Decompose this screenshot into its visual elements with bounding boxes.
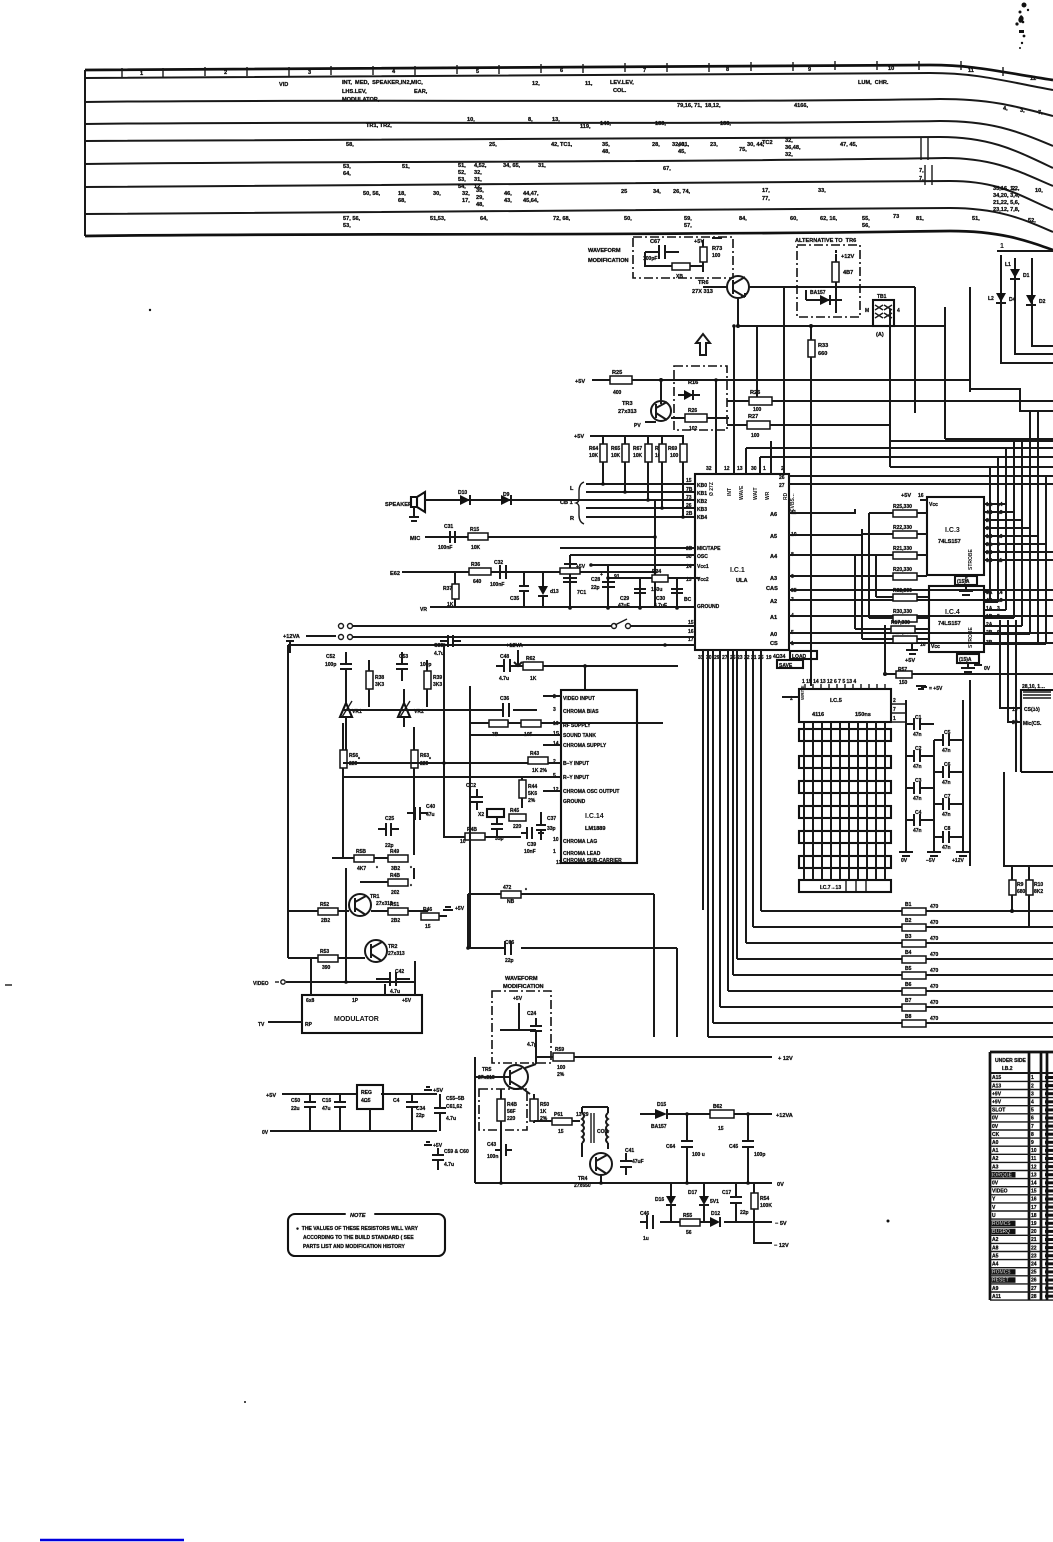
svg-text:64,: 64, — [480, 216, 488, 222]
svg-text:30,: 30, — [433, 191, 441, 197]
svg-text:R64: R64 — [589, 446, 598, 452]
svg-text:R–Y INPUT: R–Y INPUT — [563, 775, 589, 781]
ground -5V — [927, 852, 941, 856]
svg-text:45,: 45, — [678, 149, 686, 155]
svg-text:L: L — [570, 486, 574, 492]
svg-text:MODIFICATION: MODIFICATION — [503, 984, 544, 990]
svg-text:C33: C33 — [434, 643, 443, 649]
dashed box alternative — [797, 245, 860, 317]
svg-text:100n: 100n — [487, 1154, 498, 1160]
svg-text:BA157: BA157 — [810, 290, 826, 296]
svg-text:R67: R67 — [633, 446, 642, 452]
svg-text:146,: 146, — [600, 121, 611, 127]
svg-text:R10: R10 — [1034, 882, 1043, 888]
svg-text:L2: L2 — [988, 296, 994, 302]
svg-text:INT: INT — [727, 488, 733, 496]
svg-text:C37: C37 — [547, 816, 556, 822]
resistor R46 — [421, 913, 439, 920]
svg-text:IORQGE: IORQGE — [992, 1172, 1013, 1178]
svg-text:57, 56,: 57, 56, — [343, 216, 361, 222]
trimmer VR2 — [398, 703, 410, 717]
svg-text:R51: R51 — [390, 902, 399, 908]
resistor B3 470 — [746, 942, 1053, 944]
svg-text:RF SUPPLY: RF SUPPLY — [563, 723, 591, 729]
diode ZD — [672, 263, 690, 270]
svg-text:25: 25 — [621, 189, 627, 195]
resistor R50 — [530, 1099, 538, 1121]
svg-text:C34: C34 — [416, 1106, 425, 1112]
wire data 1 — [707, 650, 709, 1037]
svg-text:23,12, 7,8,: 23,12, 7,8, — [993, 207, 1020, 213]
IC4 pin lines to bus — [984, 591, 990, 593]
svg-text:A2: A2 — [770, 599, 777, 605]
svg-text:A13: A13 — [992, 1083, 1001, 1089]
svg-text:100p: 100p — [325, 662, 336, 668]
svg-text:C24: C24 — [527, 1011, 536, 1017]
TR5 wiring — [535, 1051, 537, 1064]
svg-text:WAVE: WAVE — [739, 485, 745, 500]
wire Vcc2 row — [608, 577, 700, 579]
harness wire row 6 — [85, 181, 1053, 210]
trimmer VR1 — [340, 703, 352, 717]
svg-text:2B2: 2B2 — [321, 918, 330, 924]
svg-text:R34: R34 — [652, 569, 661, 575]
dashed box D14 — [674, 366, 727, 430]
svg-text:C16: C16 — [322, 1098, 331, 1104]
diode d13 — [538, 586, 548, 595]
svg-text:C43: C43 — [487, 1142, 496, 1148]
svg-text:D12: D12 — [711, 1211, 720, 1217]
svg-text:C53: C53 — [399, 654, 408, 660]
svg-text:+5V: +5V — [402, 998, 412, 1004]
svg-text:R30,330: R30,330 — [893, 609, 912, 615]
svg-text:E62: E62 — [390, 571, 400, 577]
svg-text:10: 10 — [553, 837, 559, 843]
svg-text:C61,62: C61,62 — [446, 1104, 462, 1110]
svg-text:50,: 50, — [624, 216, 632, 222]
resistor R52 — [318, 908, 338, 915]
svg-text:U: U — [992, 1213, 996, 1219]
svg-text:640: 640 — [473, 579, 482, 585]
svg-text:23,: 23, — [710, 142, 718, 148]
svg-text:WAVEFORM: WAVEFORM — [505, 976, 538, 982]
svg-text:MODULATOR,: MODULATOR, — [342, 97, 380, 103]
svg-text:51,: 51, — [972, 216, 980, 222]
svg-text:20: 20 — [1031, 1229, 1037, 1235]
svg-text:470: 470 — [930, 904, 939, 910]
svg-text:470: 470 — [930, 920, 939, 926]
svg-text:1u: 1u — [643, 1236, 649, 1242]
svg-text:1K: 1K — [540, 1109, 547, 1115]
svg-text:− 12V: − 12V — [774, 1243, 789, 1249]
svg-text:*: * — [410, 866, 412, 872]
svg-text:ROMCS: ROMCS — [992, 1221, 1011, 1227]
svg-text:10: 10 — [460, 839, 466, 845]
resistor R53 — [318, 955, 338, 962]
svg-text:27X 313: 27X 313 — [692, 289, 713, 295]
svg-text:C39: C39 — [527, 842, 536, 848]
svg-text:4B7: 4B7 — [843, 270, 853, 276]
svg-text:11: 11 — [968, 68, 974, 74]
svg-text:R4B: R4B — [507, 1102, 517, 1108]
svg-text:D4: D4 — [1009, 297, 1016, 303]
wire vbus 7 — [1037, 411, 1039, 644]
svg-text:7: 7 — [643, 68, 646, 74]
transistor TR2 — [365, 940, 387, 962]
svg-text:220: 220 — [507, 1116, 516, 1122]
resistor R55 — [680, 1219, 700, 1226]
IC3 pin lines to bus — [984, 503, 1006, 505]
wire long bottom — [708, 1036, 1053, 1038]
svg-text:CHROMA SUPPLY: CHROMA SUPPLY — [563, 743, 607, 749]
svg-text:27x313: 27x313 — [388, 951, 405, 957]
svg-text:A9: A9 — [992, 1286, 999, 1292]
capacitor C29 — [639, 578, 641, 608]
svg-text:79,16, 71, 18,12,: 79,16, 71, 18,12, — [677, 103, 721, 109]
svg-text:7,: 7, — [919, 176, 924, 182]
wire A5 — [789, 529, 862, 535]
svg-text:LM1889: LM1889 — [585, 826, 606, 832]
connector table frame — [990, 1052, 1053, 1300]
svg-text:R17,330: R17,330 — [891, 620, 910, 626]
svg-text:VID: VID — [279, 82, 288, 88]
svg-text:2: 2 — [1031, 1083, 1034, 1089]
svg-text:*: * — [410, 884, 412, 890]
resistor R43 — [528, 757, 548, 764]
svg-text:42,: 42, — [551, 142, 559, 148]
wire data 4 — [727, 650, 729, 991]
diode D17 — [699, 1196, 709, 1205]
wire ram 7 — [866, 722, 868, 880]
wire data 8 — [752, 650, 754, 927]
svg-text:PV: PV — [634, 423, 641, 429]
svg-text:15: 15 — [425, 924, 431, 930]
wire A3 — [789, 571, 876, 576]
resistor R67 — [832, 262, 839, 282]
svg-text:C52: C52 — [326, 654, 335, 660]
svg-text:8K2: 8K2 — [1034, 889, 1043, 895]
resistor R58 — [354, 855, 374, 862]
svg-text:470: 470 — [930, 984, 939, 990]
svg-text:14: 14 — [1031, 1181, 1037, 1187]
op IC2 partial right box — [1021, 690, 1053, 772]
svg-text:R38: R38 — [375, 675, 384, 681]
svg-text:R45: R45 — [510, 808, 519, 814]
svg-text:BUSRQ: BUSRQ — [992, 1229, 1010, 1235]
resistor R48b — [497, 1099, 505, 1121]
resistor R51 — [388, 908, 408, 915]
RAM row IC11 — [799, 856, 891, 868]
svg-text:3: 3 — [553, 707, 556, 713]
svg-text:R36: R36 — [471, 562, 480, 568]
wire TB1 drop — [889, 309, 891, 467]
wire A2 — [789, 599, 1053, 601]
svg-text:R4B: R4B — [390, 873, 400, 879]
svg-text:+5V: +5V — [513, 996, 523, 1002]
svg-text:81,: 81, — [916, 216, 924, 222]
wire vbus 3 — [1005, 448, 1007, 610]
svg-text:22: 22 — [1031, 1245, 1037, 1251]
svg-text:1P: 1P — [352, 998, 359, 1004]
svg-text:28,: 28, — [652, 142, 660, 148]
svg-text:100p: 100p — [754, 1152, 765, 1158]
note box — [288, 1214, 445, 1256]
svg-text:26: 26 — [1031, 1278, 1037, 1284]
svg-text:60,: 60, — [790, 216, 798, 222]
svg-text:B2: B2 — [905, 918, 912, 924]
wire data 5 — [732, 650, 734, 975]
svg-text:18: 18 — [1031, 1213, 1037, 1219]
svg-text:7B: 7B — [686, 487, 693, 493]
svg-text:32,: 32, — [785, 138, 793, 144]
svg-text:B1: B1 — [905, 902, 912, 908]
wire stubs — [331, 857, 333, 859]
svg-text:2%: 2% — [557, 1072, 565, 1078]
svg-text:A6: A6 — [770, 512, 777, 518]
svg-text:B6: B6 — [905, 982, 912, 988]
svg-text:= +5V: = +5V — [929, 686, 943, 692]
wire ram 1 — [812, 722, 814, 880]
capacitor C37 — [536, 825, 546, 830]
svg-text:4: 4 — [1031, 1100, 1034, 1106]
RAM row IC9 — [799, 806, 891, 818]
svg-text:R55: R55 — [683, 1213, 692, 1219]
wire A0 — [789, 632, 1053, 634]
svg-text:2B: 2B — [686, 511, 693, 517]
svg-text:C55–5B: C55–5B — [446, 1096, 465, 1102]
svg-text:32,: 32, — [474, 170, 482, 176]
svg-text:100 u: 100 u — [692, 1152, 705, 1158]
svg-text:ROMCS: ROMCS — [992, 1270, 1011, 1276]
svg-text:3B2: 3B2 — [391, 866, 400, 872]
+12V arrow — [835, 250, 837, 253]
svg-text:CS(ʖʖ): CS(ʖʖ) — [1024, 707, 1040, 713]
wire data 6 — [736, 650, 738, 959]
svg-text:WAIT: WAIT — [753, 488, 759, 501]
svg-text:− 5V: − 5V — [775, 1221, 787, 1227]
svg-text:TR2: TR2 — [388, 944, 398, 950]
svg-text:22p: 22p — [740, 1210, 749, 1216]
svg-text:0V: 0V — [262, 1130, 269, 1136]
connector TB1 — [873, 300, 894, 326]
address feed verticals — [854, 555, 856, 629]
svg-text:220: 220 — [513, 824, 522, 830]
svg-text:150: 150 — [899, 680, 908, 686]
0V rail — [475, 1182, 772, 1184]
ground +12V — [956, 852, 970, 856]
resistor R61 — [552, 1118, 572, 1125]
svg-text:51,53,: 51,53, — [430, 216, 446, 222]
svg-text:47u: 47u — [322, 1106, 331, 1112]
LED D4 — [996, 293, 1006, 302]
svg-text:17: 17 — [1031, 1205, 1037, 1211]
svg-text:470: 470 — [930, 936, 939, 942]
svg-text:+: + — [600, 572, 603, 578]
svg-text:TB1: TB1 — [877, 294, 887, 300]
svg-text:1: 1 — [140, 71, 143, 77]
resistor R9 680 — [1003, 865, 1053, 867]
svg-text:TR1, TR2,: TR1, TR2, — [366, 123, 392, 129]
wire A1 — [789, 615, 1053, 617]
svg-text:EAR,: EAR, — [414, 89, 428, 95]
svg-text:SLOT: SLOT — [992, 1108, 1005, 1114]
svg-text:7,: 7, — [919, 168, 924, 174]
svg-text:NB: NB — [507, 899, 515, 905]
svg-text:ALTERNATIVE TO TR6: ALTERNATIVE TO TR6 — [795, 238, 856, 244]
-12V stub — [754, 1222, 772, 1243]
svg-text:+12VA: +12VA — [776, 1113, 793, 1119]
svg-text:2B2: 2B2 — [391, 918, 400, 924]
svg-text:48,: 48, — [476, 202, 484, 208]
svg-text:SAVE: SAVE — [779, 663, 793, 669]
svg-text:CS: CS — [770, 641, 778, 647]
svg-text:A4: A4 — [770, 554, 778, 560]
svg-text:47n: 47n — [942, 845, 951, 851]
svg-text:4.7u: 4.7u — [446, 1116, 456, 1122]
svg-text:R9: R9 — [1017, 882, 1024, 888]
svg-text:Vcc: Vcc — [931, 644, 940, 650]
svg-text:ULA: ULA — [736, 578, 748, 584]
svg-text:75,: 75, — [739, 147, 747, 153]
svg-text:8: 8 — [726, 67, 729, 73]
svg-text:C4: C4 — [393, 1098, 400, 1104]
svg-text:R52: R52 — [320, 902, 329, 908]
svg-text:119,: 119, — [580, 124, 591, 130]
svg-text:188,: 188, — [720, 121, 731, 127]
svg-text:TV: TV — [258, 1022, 265, 1028]
svg-text:470: 470 — [930, 1000, 939, 1006]
svg-text:10: 10 — [888, 66, 894, 72]
wire speaker row — [425, 499, 655, 501]
svg-text:1: 1 — [1031, 1075, 1034, 1081]
svg-text:*: * — [376, 866, 378, 872]
svg-text:52,: 52, — [458, 170, 466, 176]
wire ram 5 — [848, 722, 850, 880]
svg-text:150u: 150u — [651, 587, 662, 593]
svg-text:23: 23 — [1031, 1253, 1037, 1259]
wire vbus 2 — [997, 457, 999, 602]
svg-text:0V: 0V — [992, 1181, 999, 1187]
ground 0V — [899, 852, 913, 856]
svg-text:R59: R59 — [555, 1047, 564, 1053]
svg-text:28: 28 — [1031, 1294, 1037, 1300]
wire bus row c — [760, 456, 1053, 458]
svg-text:22u: 22u — [291, 1106, 300, 1112]
wire data 0 — [702, 650, 704, 910]
svg-text:R26: R26 — [688, 408, 697, 414]
svg-text:A0: A0 — [992, 1140, 999, 1146]
svg-text:7C1: 7C1 — [577, 590, 586, 596]
wire data 7 — [745, 650, 747, 943]
svg-text:I.C.4: I.C.4 — [945, 609, 960, 616]
svg-text:R50: R50 — [540, 1102, 549, 1108]
svg-text:CHROMA LEAD: CHROMA LEAD — [563, 851, 601, 857]
table col2 cut marks — [1045, 1076, 1053, 1298]
svg-text:0V: 0V — [777, 1182, 784, 1188]
svg-text:I.C.7→13: I.C.7→13 — [820, 885, 841, 891]
svg-text:A2: A2 — [992, 1156, 999, 1162]
svg-text:1: 1 — [553, 849, 556, 855]
wire OSC row — [570, 554, 696, 556]
svg-text:C50: C50 — [291, 1098, 300, 1104]
svg-text:4K7: 4K7 — [357, 866, 366, 872]
svg-text:ACCORDING TO THE BUILD STANDAR: ACCORDING TO THE BUILD STANDARD ( SEE — [303, 1235, 414, 1241]
svg-text:CAS: CAS — [766, 586, 778, 592]
svg-text:22p: 22p — [591, 585, 600, 591]
wire ram 4 — [839, 722, 841, 880]
svg-text:+5V: +5V — [901, 493, 911, 499]
svg-text:B8: B8 — [905, 1014, 912, 1020]
resistor B7 470 — [720, 1006, 1053, 1008]
wire drop e — [914, 287, 916, 413]
switch lever — [612, 624, 617, 629]
svg-text:0V: 0V — [901, 858, 908, 864]
svg-text:D17: D17 — [688, 1190, 697, 1196]
long wire step right — [970, 380, 1053, 411]
svg-text:R: R — [570, 516, 574, 522]
svg-text:56,: 56, — [862, 223, 870, 229]
wire MIC/TAPE row — [560, 547, 695, 549]
svg-text:3: 3 — [308, 70, 311, 76]
svg-text:5K6: 5K6 — [528, 791, 537, 797]
svg-text:A3: A3 — [992, 1164, 999, 1170]
svg-text:7: 7 — [893, 707, 896, 713]
svg-text:59,: 59, — [684, 216, 692, 222]
harness left border — [84, 70, 86, 236]
svg-text:56: 56 — [686, 1230, 692, 1236]
svg-text:+12V: +12V — [841, 254, 854, 260]
svg-text:45,64,: 45,64, — [523, 198, 539, 204]
svg-text:10K: 10K — [611, 453, 621, 459]
svg-text:47n: 47n — [913, 732, 922, 738]
svg-text:46,: 46, — [678, 142, 686, 148]
resistor R45 — [509, 814, 526, 821]
svg-text:WAVEFORM: WAVEFORM — [588, 248, 621, 254]
svg-text:D15: D15 — [657, 1102, 666, 1108]
svg-text:B4: B4 — [905, 950, 912, 956]
svg-text:12,: 12, — [532, 81, 540, 87]
svg-text:150ns: 150ns — [855, 712, 871, 718]
resistor R40 — [489, 720, 508, 727]
wire A4 — [789, 550, 869, 555]
svg-text:660: 660 — [818, 351, 827, 357]
wires TR1 TR2 — [343, 868, 360, 916]
svg-text:34,20, 3,4,: 34,20, 3,4, — [993, 193, 1020, 199]
harness wire row 4 — [85, 137, 1053, 168]
svg-text:34,: 34, — [653, 189, 661, 195]
svg-text:26, 74,: 26, 74, — [673, 189, 691, 195]
svg-text:33,: 33, — [818, 188, 826, 194]
svg-text:1: 1 — [893, 716, 896, 722]
svg-text:+5V: +5V — [575, 379, 585, 385]
harness wire row 7 — [85, 208, 1053, 232]
svg-text:13,: 13, — [552, 117, 560, 123]
svg-text:12: 12 — [1030, 76, 1036, 82]
svg-text:202: 202 — [391, 890, 400, 896]
svg-text:26: 26 — [686, 503, 692, 509]
svg-text:47n: 47n — [942, 812, 951, 818]
svg-text:4,52,: 4,52, — [474, 163, 487, 169]
svg-text:VIDEO: VIDEO — [992, 1189, 1008, 1195]
svg-text:OSC: OSC — [697, 554, 708, 560]
wire CS — [789, 642, 1053, 644]
wire row g — [945, 438, 1053, 440]
svg-text:24: 24 — [1031, 1262, 1037, 1268]
svg-text:1: 1 — [1000, 243, 1004, 250]
svg-text:10K: 10K — [471, 545, 481, 551]
svg-text:D1: D1 — [1023, 273, 1030, 279]
svg-text:GROUND: GROUND — [563, 799, 586, 805]
